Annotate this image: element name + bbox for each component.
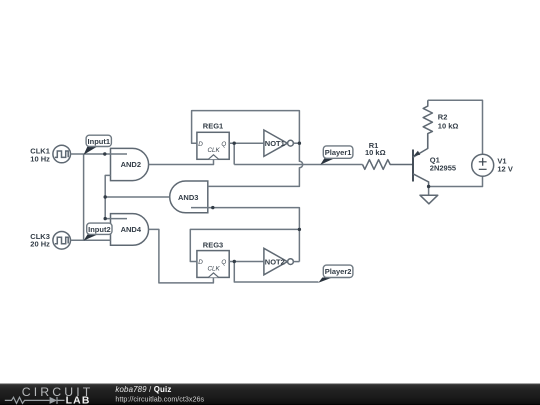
wire REG3 Q to NOT2 input bbox=[229, 261, 264, 263]
clock source CLK1 bbox=[53, 145, 71, 163]
wire AND3 output to column bbox=[105, 196, 169, 198]
svg-text:10 kΩ: 10 kΩ bbox=[438, 121, 459, 130]
wire REG1 Q to NOT1 input bbox=[229, 142, 264, 144]
svg-text:12 V: 12 V bbox=[497, 164, 512, 173]
wire V1 bottom to Q1 collector node bbox=[429, 176, 483, 186]
transistor Q1 bbox=[413, 134, 429, 187]
flag Input1 bbox=[84, 135, 112, 155]
svg-text:Input1: Input1 bbox=[88, 137, 111, 146]
svg-text:AND4: AND4 bbox=[121, 225, 142, 234]
wire CLK1 to AND2 top input bbox=[71, 153, 128, 155]
svg-text:LAB: LAB bbox=[66, 395, 91, 405]
footer bar bbox=[0, 384, 540, 405]
wire AND4 top input stub bbox=[105, 218, 127, 220]
junction node at AND2 top input bbox=[103, 152, 106, 155]
wire REG1 feedback D loop bbox=[192, 111, 300, 144]
svg-text:CLK: CLK bbox=[207, 147, 220, 154]
svg-text:CLK: CLK bbox=[207, 266, 220, 273]
junction node at AND4 top input bbox=[104, 217, 107, 220]
svg-text:REG3: REG3 bbox=[203, 241, 223, 250]
svg-text:AND3: AND3 bbox=[178, 193, 198, 202]
d-flip-flop REG3 bbox=[197, 241, 229, 278]
svg-text:Player2: Player2 bbox=[325, 267, 352, 276]
svg-text:D: D bbox=[198, 259, 203, 266]
clock source CLK3 bbox=[53, 232, 71, 250]
wire main output line to R1 bbox=[234, 164, 362, 166]
d-flip-flop REG1 bbox=[197, 121, 229, 159]
svg-text:Input2: Input2 bbox=[88, 225, 111, 234]
wire AND2 output to REG1 CLK bbox=[149, 159, 214, 164]
svg-text:10 kΩ: 10 kΩ bbox=[365, 148, 386, 157]
footer logo CIRCUIT bbox=[22, 385, 94, 399]
junction node at AND3 bottom input bbox=[211, 206, 214, 209]
wire REG1 Q down to output line bbox=[233, 143, 235, 164]
wire NOT1 output stub bbox=[293, 142, 299, 144]
svg-text:NOT2: NOT2 bbox=[265, 257, 285, 266]
svg-text:AND2: AND2 bbox=[121, 160, 141, 169]
resistor R2 bbox=[423, 100, 432, 148]
junction node at NOT1 output bbox=[298, 142, 301, 145]
wire AND3 bottom input to NOT2 output column bbox=[191, 208, 299, 262]
label R1 name and value 10 kOhm bbox=[365, 141, 386, 157]
flag Player2 bbox=[318, 265, 353, 283]
svg-text:koba789 / Quiz: koba789 / Quiz bbox=[115, 385, 171, 394]
svg-text:Player1: Player1 bbox=[325, 148, 352, 157]
label CLK3 name and value 20 Hz bbox=[30, 232, 50, 249]
wire NOT2 output stub bbox=[293, 261, 299, 263]
wire NOT1 output down to AND3 top input (with hop) bbox=[208, 143, 303, 186]
junction node at REG1 Q bbox=[233, 142, 236, 145]
footer url bbox=[115, 394, 204, 403]
ground bbox=[420, 187, 438, 204]
wire R2 top to V1 top bbox=[428, 100, 483, 154]
flag Input2 bbox=[84, 223, 112, 241]
svg-text:http://circuitlab.com/ct3x26s: http://circuitlab.com/ct3x26s bbox=[115, 394, 204, 403]
and-gate AND4 bbox=[111, 214, 149, 246]
flag Player1 bbox=[320, 146, 353, 165]
svg-text:Q: Q bbox=[221, 141, 226, 148]
inverter NOT2 bbox=[264, 248, 294, 274]
label Q1 name and part 2N2955 bbox=[430, 155, 456, 172]
wire AND2 bottom input from AND3 output column bbox=[105, 175, 111, 218]
svg-text:20 Hz: 20 Hz bbox=[30, 240, 50, 249]
svg-text:NOT1: NOT1 bbox=[265, 139, 285, 148]
wire CLK3 to AND4 bottom input bbox=[71, 239, 111, 241]
svg-text:Q: Q bbox=[221, 259, 226, 266]
wire REG3 Q down to Player2 bbox=[234, 262, 318, 283]
label V1 name and value 12 V bbox=[497, 157, 512, 174]
junction node at REG3 feedback bbox=[298, 228, 301, 231]
junction node at REG3 Q bbox=[233, 260, 236, 263]
voltage source V1 bbox=[472, 154, 494, 176]
resistor R1 bbox=[363, 160, 414, 170]
junction node at AND3 output column mid bbox=[104, 195, 107, 198]
footer logo LAB bbox=[66, 395, 91, 405]
wire vertical link Input1 to Input2 bbox=[83, 154, 85, 240]
footer title koba789 / Quiz bbox=[115, 385, 171, 394]
svg-text:D: D bbox=[198, 141, 203, 148]
svg-text:10 Hz: 10 Hz bbox=[30, 154, 50, 163]
label R2 name and value 10 kOhm bbox=[438, 112, 459, 130]
and-gate AND2 bbox=[111, 148, 149, 180]
label CLK1 name and value 10 Hz bbox=[30, 147, 50, 164]
wire AND4 output to REG3 CLK bbox=[149, 229, 214, 283]
svg-text:R2: R2 bbox=[438, 112, 448, 121]
inverter NOT1 bbox=[264, 130, 294, 156]
footer logo resistor-diode line bbox=[5, 397, 65, 404]
svg-text:2N2955: 2N2955 bbox=[430, 164, 456, 173]
svg-text:REG1: REG1 bbox=[203, 121, 223, 130]
wire REG3 feedback D loop bbox=[190, 229, 299, 261]
and-gate AND3 (mirrored) bbox=[170, 181, 208, 213]
junction node at Q1 collector / ground bbox=[427, 185, 430, 188]
